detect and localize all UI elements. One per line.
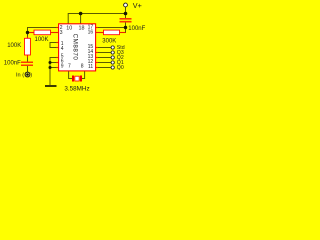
svg-text:100nF: 100nF [4, 61, 21, 67]
ground [45, 85, 57, 87]
wire pin17 to node [96, 27, 126, 29]
svg-text:CM8870: CM8870 [71, 34, 78, 61]
svg-text:3: 3 [60, 30, 63, 36]
svg-text:10: 10 [66, 26, 72, 32]
svg-text:V+: V+ [133, 1, 142, 10]
wire cap C1 to In terminal [27, 66, 29, 72]
wire pin7 to crystal [69, 71, 72, 79]
svg-text:16: 16 [88, 30, 94, 36]
svg-text:18: 18 [79, 26, 85, 32]
capacitor C2 100nF [120, 18, 132, 23]
wire cap C2 bottom to R3 corner [120, 23, 126, 33]
svg-text:3.58MHz: 3.58MHz [64, 86, 89, 93]
wire R1 bottom to cap C1 [27, 57, 29, 62]
Q1 terminal [111, 61, 114, 64]
Q3 terminal [111, 51, 114, 54]
svg-text:Q0: Q0 [117, 65, 124, 71]
In terminal [25, 72, 30, 77]
junction node pin9 [49, 66, 52, 69]
svg-text:100K: 100K [35, 37, 49, 43]
svg-text:): ) [30, 73, 32, 79]
crystal X1 3.58MHz [72, 76, 82, 82]
junction node input [26, 31, 29, 34]
junction node V+/rail [124, 12, 128, 16]
resistor R1 100K vertical [25, 37, 31, 58]
wire pin1-pin4 bracket [50, 43, 59, 48]
wire V+ terminal stub [125, 7, 127, 14]
svg-text:11: 11 [88, 64, 93, 70]
svg-text:9: 9 [61, 64, 64, 70]
svg-text:100K: 100K [7, 43, 21, 49]
wire pin12 to Q1 terminal [96, 62, 111, 64]
wire pin11 to Q0 terminal [96, 67, 111, 69]
wire pin5-6-9 bracket to ground [50, 58, 59, 86]
wire pin9 stub [50, 67, 59, 69]
wire pin13 to Q2 terminal [96, 57, 111, 59]
svg-text:4: 4 [61, 46, 64, 52]
junction node pin6 [49, 61, 52, 64]
wire pin8 to crystal [82, 71, 85, 79]
svg-text:7: 7 [68, 63, 71, 69]
Std terminal [111, 46, 114, 49]
svg-text:8: 8 [81, 63, 84, 69]
wire pin14 to Q3 terminal [96, 52, 111, 54]
svg-text:100nF: 100nF [128, 26, 145, 32]
IC U1 CM8870 body [59, 24, 96, 71]
junction node pin18/rail [79, 12, 83, 16]
wire: V+ rail top horizontal [28, 7, 126, 85]
svg-text:In (: In ( [16, 73, 24, 79]
junction node cap/pin17 [124, 26, 127, 29]
resistor R3 300K [96, 30, 126, 35]
V+ terminal [124, 3, 128, 7]
wire pin18 vertical [80, 14, 82, 24]
wire pin2 to input node [28, 28, 59, 33]
wire pin10 to rail [68, 14, 125, 24]
wire R1 top lead segment [27, 33, 29, 37]
red pin stubs at IC edges [56, 28, 98, 68]
svg-text:300K: 300K [102, 39, 116, 45]
capacitor C1 100nF [21, 62, 33, 67]
Q0 terminal [111, 66, 114, 69]
wire pin15 to Std terminal [96, 47, 111, 49]
Q2 terminal [111, 56, 114, 59]
resistor R2 100K horizontal [29, 30, 59, 35]
wire pin6 stub [50, 62, 59, 64]
